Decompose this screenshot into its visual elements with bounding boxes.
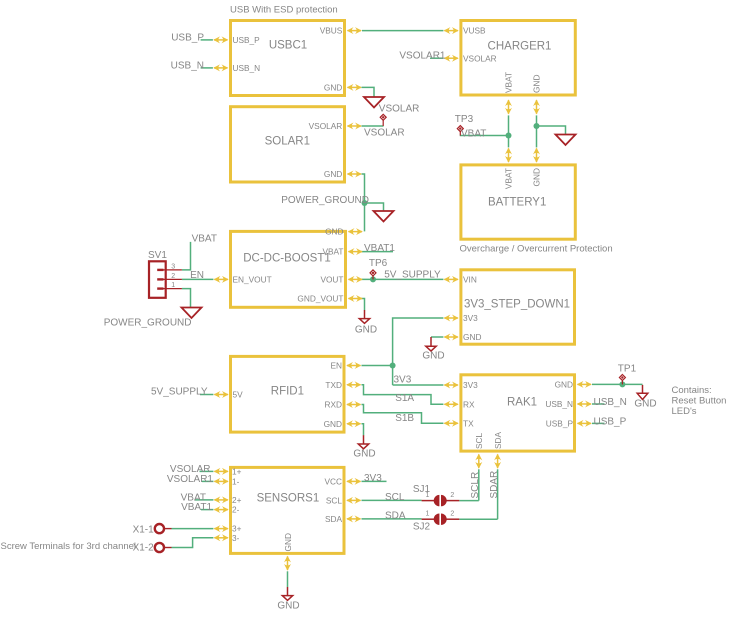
svg-text:VBAT1: VBAT1	[181, 502, 212, 513]
svg-text:VBAT: VBAT	[504, 168, 514, 189]
svg-text:SCL: SCL	[385, 492, 405, 503]
svg-text:Overcharge / Overcurrent Prote: Overcharge / Overcurrent Protection	[460, 243, 613, 254]
svg-text:VSOLAR1: VSOLAR1	[167, 474, 214, 485]
svg-text:EN: EN	[330, 361, 342, 371]
svg-text:1: 1	[171, 282, 175, 289]
svg-text:VIN: VIN	[463, 275, 477, 285]
svg-text:S1B: S1B	[395, 413, 414, 424]
svg-text:GND: GND	[283, 533, 293, 551]
svg-text:GND: GND	[277, 600, 299, 611]
svg-text:SV1: SV1	[148, 250, 167, 261]
svg-text:RAK1: RAK1	[507, 397, 537, 409]
svg-text:DC-DC-BOOST1: DC-DC-BOOST1	[243, 253, 331, 265]
svg-text:GND: GND	[325, 227, 343, 237]
svg-text:1-: 1-	[232, 477, 240, 487]
svg-text:VSOLAR: VSOLAR	[379, 104, 420, 115]
svg-text:RX: RX	[463, 399, 475, 409]
svg-text:SCL: SCL	[326, 495, 343, 505]
svg-text:SJ2: SJ2	[413, 522, 431, 533]
svg-text:VSOLAR1: VSOLAR1	[399, 50, 446, 61]
svg-text:SDA: SDA	[493, 431, 503, 449]
svg-text:2-: 2-	[232, 505, 240, 515]
svg-text:GND: GND	[422, 350, 444, 361]
svg-text:1: 1	[425, 492, 429, 499]
svg-text:5V_SUPPLY: 5V_SUPPLY	[151, 387, 208, 398]
svg-text:VBAT: VBAT	[322, 247, 343, 257]
svg-text:Screw Terminals for 3rd channe: Screw Terminals for 3rd channel	[1, 541, 137, 552]
svg-text:TXD: TXD	[325, 380, 342, 390]
svg-text:USB_N: USB_N	[171, 60, 204, 71]
svg-text:GND: GND	[634, 399, 656, 410]
svg-text:SDAR: SDAR	[489, 471, 500, 499]
svg-text:S1A: S1A	[395, 393, 414, 404]
svg-text:VOUT: VOUT	[320, 275, 343, 285]
svg-text:LED's: LED's	[672, 406, 697, 417]
svg-text:RXD: RXD	[324, 400, 342, 410]
svg-text:GND_VOUT: GND_VOUT	[297, 294, 343, 304]
svg-text:USB_N: USB_N	[594, 397, 627, 408]
svg-text:3V3: 3V3	[463, 313, 478, 323]
svg-text:3: 3	[171, 264, 175, 271]
svg-text:2: 2	[450, 492, 454, 499]
svg-text:USB_P: USB_P	[594, 416, 627, 427]
svg-text:VBAT1: VBAT1	[364, 243, 395, 254]
svg-text:EN: EN	[190, 270, 204, 281]
svg-text:3V3: 3V3	[364, 473, 382, 484]
svg-text:Contains:: Contains:	[672, 385, 712, 396]
svg-text:TX: TX	[463, 418, 474, 428]
svg-text:SDA: SDA	[385, 510, 406, 521]
svg-text:2+: 2+	[232, 495, 242, 505]
svg-text:2: 2	[450, 511, 454, 518]
svg-text:USB_N: USB_N	[545, 399, 573, 409]
svg-text:VSOLAR: VSOLAR	[463, 53, 497, 63]
svg-text:2: 2	[171, 273, 175, 280]
svg-text:3V3: 3V3	[463, 380, 478, 390]
svg-text:CHARGER1: CHARGER1	[488, 41, 552, 53]
svg-text:GND: GND	[353, 449, 375, 460]
svg-text:VUSB: VUSB	[463, 26, 486, 36]
svg-text:USB With ESD protection: USB With ESD protection	[230, 4, 338, 15]
svg-text:1+: 1+	[232, 467, 242, 477]
svg-text:USB_P: USB_P	[233, 35, 261, 45]
svg-text:EN_VOUT: EN_VOUT	[233, 275, 272, 285]
svg-text:TP1: TP1	[618, 364, 637, 375]
svg-text:SDA: SDA	[325, 514, 343, 524]
svg-text:VSOLAR: VSOLAR	[364, 127, 405, 138]
svg-text:5V: 5V	[233, 390, 244, 400]
svg-text:GND: GND	[532, 75, 542, 93]
svg-text:USB_P: USB_P	[171, 32, 204, 43]
svg-text:TP6: TP6	[369, 258, 388, 269]
svg-text:VBAT: VBAT	[504, 72, 514, 93]
svg-text:USBC1: USBC1	[269, 40, 307, 52]
svg-text:VSOLAR: VSOLAR	[309, 121, 343, 131]
svg-text:GND: GND	[355, 325, 377, 336]
svg-text:Reset Button: Reset Button	[672, 395, 727, 406]
svg-text:GND: GND	[555, 380, 573, 390]
svg-text:BATTERY1: BATTERY1	[488, 197, 546, 209]
svg-text:GND: GND	[324, 83, 342, 93]
svg-text:SCLR: SCLR	[470, 472, 481, 499]
svg-text:3V3_STEP_DOWN1: 3V3_STEP_DOWN1	[464, 299, 570, 311]
svg-text:VBUS: VBUS	[320, 26, 343, 36]
svg-text:5V_SUPPLY: 5V_SUPPLY	[384, 270, 441, 281]
svg-text:SENSORS1: SENSORS1	[257, 492, 320, 504]
svg-text:GND: GND	[324, 419, 342, 429]
svg-text:1: 1	[425, 511, 429, 518]
svg-text:SCL: SCL	[474, 432, 484, 449]
svg-text:VCC: VCC	[324, 477, 342, 487]
svg-text:POWER_GROUND: POWER_GROUND	[281, 195, 369, 206]
svg-text:GND: GND	[463, 332, 481, 342]
svg-text:3-: 3-	[232, 533, 240, 543]
svg-text:TP3: TP3	[455, 114, 474, 125]
svg-text:VBAT: VBAT	[192, 234, 217, 245]
svg-text:POWER_GROUND: POWER_GROUND	[104, 318, 192, 329]
svg-text:X1-1: X1-1	[133, 524, 155, 535]
svg-text:3V3: 3V3	[394, 375, 412, 386]
svg-text:USB_P: USB_P	[546, 419, 574, 429]
svg-text:GND: GND	[324, 169, 342, 179]
svg-text:GND: GND	[532, 168, 542, 186]
svg-text:USB_N: USB_N	[233, 63, 261, 73]
svg-text:RFID1: RFID1	[271, 385, 304, 397]
svg-text:VBAT: VBAT	[461, 128, 486, 139]
svg-text:SOLAR1: SOLAR1	[265, 136, 310, 148]
